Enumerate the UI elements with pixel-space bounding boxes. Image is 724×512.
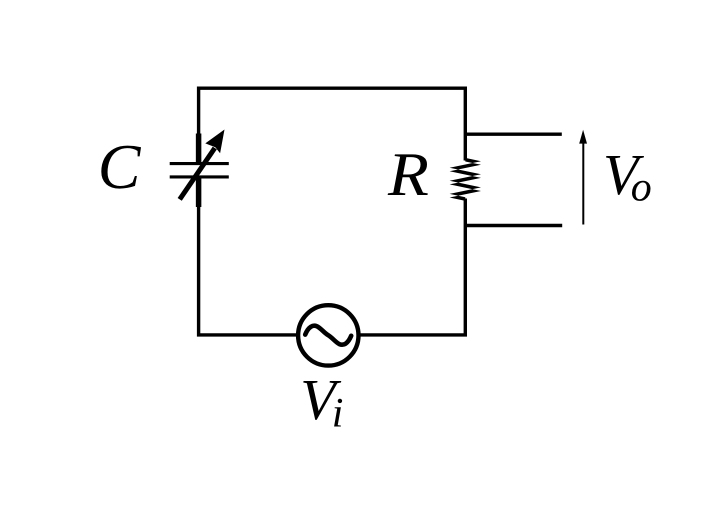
svg-text:o: o [631,165,652,211]
source V1: sine wave [305,326,351,345]
svg-text:i: i [332,391,344,437]
svg-text:R: R [387,141,429,209]
wire: bottom-right wire from source and right rail bottom [361,199,466,335]
capacitor C1: top thick lead [196,134,202,163]
svg-text:C: C [98,131,142,202]
capacitor C1: bottom thick lead [196,178,202,207]
source V1: circle [298,305,358,365]
capacitor C1: top plate [170,162,229,165]
capacitor C1: variable arrow shaft [180,148,215,199]
node Vo arrow head [579,130,587,144]
capacitor C1: bottom plate [170,175,229,178]
wire: top output tap [465,132,562,135]
node Vo arrow shaft [582,143,584,225]
capacitor C1: variable arrow head [205,130,224,154]
wire: top wire with left and right rail tops [199,88,466,160]
wire: bottom output tap [465,224,562,227]
wire: left rail bottom and bottom-left wire to source [199,207,297,335]
resistor R1: zigzag body [450,158,481,201]
